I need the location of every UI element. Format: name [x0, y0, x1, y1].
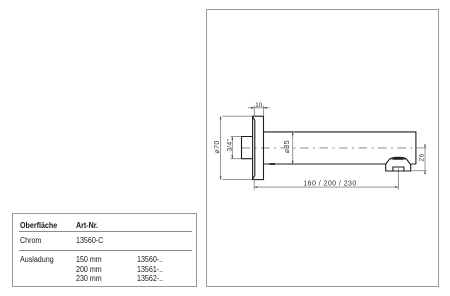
- svg-text:10: 10: [255, 102, 262, 109]
- wall flange: [253, 116, 264, 179]
- header Art-Nr.: [76, 221, 98, 230]
- svg-text:⌀70: ⌀70: [214, 140, 221, 153]
- svg-text:160 / 200 / 230: 160 / 200 / 230: [303, 180, 356, 187]
- aerator insert: [393, 167, 404, 171]
- dimension 160 / 200 / 230 (spout reach): [254, 180, 398, 189]
- aerator housing: [386, 157, 411, 171]
- dimension ⌀70 (flange diameter): [221, 116, 253, 179]
- row Chrom: [20, 236, 41, 245]
- header Oberfläche: [20, 221, 57, 230]
- svg-text:3/4": 3/4": [227, 138, 234, 151]
- dimension 3/4" (thread): [230, 137, 241, 159]
- outlet vertical centerline: [397, 168, 399, 190]
- rule under Chrom: [19, 250, 192, 251]
- spec table: [12, 213, 197, 287]
- dimension ⌀35 (tube diameter): [292, 132, 294, 164]
- rule under header: [19, 231, 192, 232]
- aerator outlet slot (dark crescent): [390, 157, 406, 159]
- drawing frame: [206, 9, 439, 287]
- spout tube body: [264, 132, 416, 164]
- flange chamfer line: [253, 117, 255, 178]
- dimension 10 (flange thickness): [248, 106, 270, 116]
- joint mark on tube underside: [270, 163, 275, 165]
- svg-text:⌀35: ⌀35: [284, 140, 291, 153]
- svg-text:26: 26: [418, 153, 425, 161]
- 3/4" nipple: [242, 137, 253, 159]
- row Ausladung: [20, 255, 54, 264]
- horizontal centerline of spout: [242, 147, 416, 149]
- dimension 26 (outlet drop): [412, 144, 427, 174]
